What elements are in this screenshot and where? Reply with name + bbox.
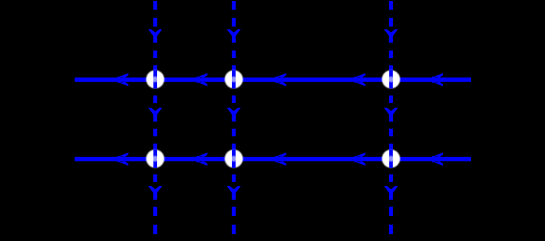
highlight on vertex V2L2 <box>231 156 237 162</box>
wire: dashed vertical line V1 <box>153 1 157 234</box>
node: vertex circle V1L1 <box>146 70 164 88</box>
wire: solid horizontal propagator line L1 <box>75 77 471 81</box>
wire: vertical bar through vertex V2L2 <box>232 150 236 168</box>
arrowhead (downward) D3 on line V2 <box>227 186 241 193</box>
arrowhead (leftward) A2 on line L2 <box>197 153 208 166</box>
arrowhead (leftward) A3 on line L1 <box>275 73 286 86</box>
node: vertex circle V1L2 <box>146 150 164 168</box>
wire: vertical bar through vertex V3L2 <box>389 150 393 168</box>
arrowhead (leftward) A4 on line L1 <box>355 73 366 86</box>
arrowhead (leftward) A3 on line L2 <box>275 153 286 166</box>
arrowhead (leftward) A2 on line L1 <box>197 73 208 86</box>
highlight on vertex V3L2 <box>388 156 394 162</box>
wire: vertical bar through vertex V1L2 <box>153 150 157 168</box>
arrowhead (downward) D3 on line V1 <box>148 186 162 193</box>
wire: vertical bar through vertex V3L1 <box>389 70 393 88</box>
wire: vertical bar through vertex V2L1 <box>232 70 236 88</box>
highlight on vertex V1L2 <box>152 156 158 162</box>
wire: dashed vertical line V2 <box>232 1 236 234</box>
arrowhead (leftward) A4 on line L2 <box>355 153 366 166</box>
arrowhead (downward) D2 on line V3 <box>384 108 398 115</box>
arrowhead (downward) D1 on line V1 <box>148 29 162 36</box>
arrowhead (leftward) A5 on line L1 <box>432 73 443 86</box>
arrowhead (downward) D1 on line V3 <box>384 29 398 36</box>
highlight on vertex V1L1 <box>152 76 158 82</box>
arrowhead (downward) D3 on line V3 <box>384 186 398 193</box>
wire: solid horizontal propagator line L2 <box>75 157 471 161</box>
highlight on vertex V3L1 <box>388 76 394 82</box>
wire: dashed vertical line V3 <box>389 1 393 234</box>
node: vertex circle V3L1 <box>382 70 400 88</box>
arrowhead (downward) D2 on line V1 <box>148 108 162 115</box>
arrowhead (leftward) A5 on line L2 <box>432 153 443 166</box>
node: vertex circle V2L1 <box>225 70 243 88</box>
arrowhead (downward) D2 on line V2 <box>227 108 241 115</box>
highlight on vertex V2L1 <box>231 76 237 82</box>
arrowhead (leftward) A1 on line L1 <box>118 73 129 86</box>
arrowhead (downward) D1 on line V2 <box>227 29 241 36</box>
arrowhead (leftward) A1 on line L2 <box>118 153 129 166</box>
node: vertex circle V2L2 <box>225 150 243 168</box>
node: vertex circle V3L2 <box>382 150 400 168</box>
wire: vertical bar through vertex V1L1 <box>153 70 157 88</box>
